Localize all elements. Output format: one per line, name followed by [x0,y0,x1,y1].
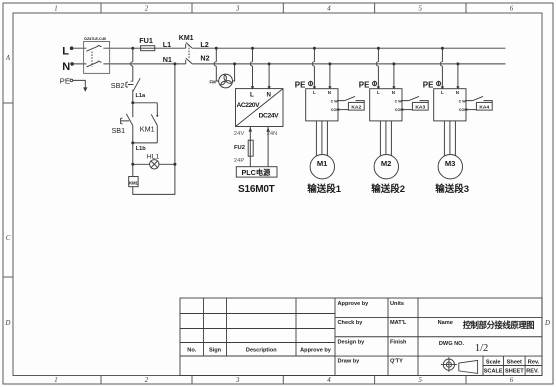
svg-text:3: 3 [235,6,240,13]
svg-text:DC24V: DC24V [259,113,279,120]
svg-text:KM1: KM1 [129,180,138,185]
svg-text:C: C [6,235,11,242]
svg-text:No.: No. [187,348,196,354]
svg-text:KM1: KM1 [179,35,194,42]
svg-text:AC220V: AC220V [237,102,261,109]
svg-text:PE: PE [60,77,70,86]
svg-text:L2: L2 [200,40,208,49]
svg-text:N: N [328,90,331,95]
svg-text:Q'TY: Q'TY [390,359,403,365]
svg-text:3: 3 [235,377,240,384]
svg-text:Check by: Check by [338,320,364,326]
svg-text:Finish: Finish [390,339,407,345]
svg-text:DZ47LE-C40: DZ47LE-C40 [84,36,105,41]
svg-text:PE: PE [295,80,306,89]
svg-text:REV.: REV. [526,369,539,375]
svg-text:输送段3: 输送段3 [435,183,469,195]
svg-text:COM: COM [459,108,468,112]
svg-text:L: L [250,92,254,99]
svg-text:Design by: Design by [338,339,366,345]
svg-text:控制部分接线原理图: 控制部分接线原理图 [463,320,535,330]
svg-text:Approve by: Approve by [300,348,332,354]
svg-text:SHEET: SHEET [505,369,524,375]
svg-text:2: 2 [145,377,149,384]
svg-text:FU1: FU1 [139,36,153,45]
svg-text:KM1: KM1 [140,124,155,133]
svg-text:Approve by: Approve by [338,301,370,307]
svg-text:SCALE: SCALE [484,369,503,375]
svg-text:FM: FM [210,79,217,84]
svg-text:L: L [313,90,316,95]
svg-text:HL1: HL1 [147,154,160,161]
svg-text:1: 1 [54,377,57,384]
svg-text:N: N [456,90,459,95]
svg-text:输送段2: 输送段2 [371,183,405,195]
svg-text:MAT'L: MAT'L [390,320,407,326]
svg-text:COM: COM [331,108,340,112]
svg-text:Name: Name [438,320,453,326]
svg-text:M2: M2 [381,159,392,168]
svg-text:N: N [62,61,70,73]
svg-text:KA4: KA4 [479,104,489,110]
svg-text:4: 4 [327,6,331,13]
svg-text:Draw by: Draw by [338,359,361,365]
svg-text:S16M0T: S16M0T [238,184,275,195]
svg-text:KA2: KA2 [351,104,361,110]
svg-text:D: D [5,320,11,327]
svg-text:L1: L1 [163,40,171,49]
svg-text:输送段1: 输送段1 [307,183,342,195]
svg-text:COM: COM [395,108,404,112]
svg-text:Scale: Scale [486,359,501,365]
svg-text:C W: C W [331,99,339,103]
svg-text:SB1: SB1 [112,126,126,135]
svg-text:1/2: 1/2 [475,343,488,354]
svg-text:Sign: Sign [209,348,222,354]
svg-text:A: A [5,55,11,62]
svg-text:N: N [267,92,272,99]
svg-text:PE: PE [359,80,370,89]
svg-text:N: N [392,90,395,95]
svg-text:24P: 24P [234,158,244,164]
svg-text:1: 1 [54,6,57,13]
svg-text:4: 4 [327,377,331,384]
svg-text:M1: M1 [317,159,328,168]
svg-text:KA3: KA3 [415,104,425,110]
svg-text:L: L [441,90,444,95]
svg-text:N1: N1 [163,55,172,64]
svg-text:SB2: SB2 [111,81,125,90]
svg-text:6: 6 [510,6,514,13]
svg-text:L: L [62,46,69,58]
svg-text:6: 6 [510,377,514,384]
svg-text:C W: C W [459,99,467,103]
svg-text:Sheet: Sheet [507,359,522,365]
svg-text:FU2: FU2 [234,145,245,151]
svg-text:M3: M3 [445,159,456,168]
svg-text:PLC电源: PLC电源 [242,168,272,177]
svg-text:24N: 24N [267,131,278,137]
svg-text:Rev.: Rev. [528,359,540,365]
svg-text:2: 2 [145,6,149,13]
svg-text:DWG NO.: DWG NO. [439,341,465,347]
svg-text:L1b: L1b [136,146,147,152]
svg-text:D: D [544,320,550,327]
svg-text:5: 5 [418,6,422,13]
svg-text:Description: Description [246,348,277,354]
svg-text:C W: C W [395,99,403,103]
svg-text:N2: N2 [200,53,209,62]
svg-text:L: L [377,90,380,95]
svg-text:5: 5 [418,377,422,384]
svg-text:Units: Units [390,301,404,307]
svg-text:PE: PE [423,80,434,89]
svg-text:24V: 24V [234,131,244,137]
svg-text:L1a: L1a [136,93,147,99]
